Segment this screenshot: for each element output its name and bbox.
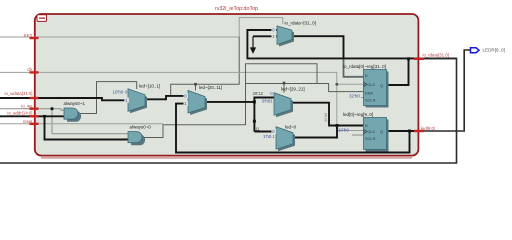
wire mux led~[20..11] out [205, 98, 275, 132]
wire KEY net [0, 18, 283, 95]
svg-text:ENA: ENA [365, 91, 373, 96]
svg-text:io_addr[14:0]: io_addr[14:0] [7, 111, 32, 116]
svg-text:io_rdata[31:0]: io_rdata[31:0] [423, 53, 449, 58]
net direction arrow [251, 36, 255, 52]
svg-text:10'h0: 10'h0 [338, 128, 349, 133]
svg-text:always0~1: always0~1 [64, 101, 86, 106]
wire io_wdata bus [0, 98, 128, 100]
register led[0]~reg[9..0] U3 [364, 118, 389, 152]
and gate always0~0 [128, 132, 145, 146]
wire mux led~[29..21] out to reg D [290, 103, 364, 126]
mux led~0 M4 [272, 127, 296, 152]
wire led feedback bus [176, 104, 419, 153]
wire always0~0 output net [144, 64, 364, 138]
svg-text:10'h0: 10'h0 [113, 90, 124, 95]
svg-text:CLK: CLK [368, 82, 376, 87]
wire io_rdata external [0, 58, 457, 163]
svg-text:always0~0: always0~0 [130, 124, 152, 129]
svg-text:led~[10..1]: led~[10..1] [139, 83, 160, 88]
collapse icon [37, 15, 47, 22]
mux led~[29..21] M3 [270, 91, 293, 117]
svg-text:led~0: led~0 [285, 124, 297, 129]
wire const stubs [352, 98, 364, 136]
wire clk net [0, 64, 364, 131]
register io_rdata[0]~reg[31..0] U2 [364, 70, 389, 108]
svg-text:32'h0: 32'h0 [349, 94, 360, 99]
output port LEDR[9:0] [471, 48, 505, 53]
wire reset net [0, 123, 163, 125]
svg-text:11: 11 [255, 127, 260, 132]
svg-text:32'h0: 32'h0 [324, 113, 328, 122]
svg-text:io_rdata~[31..0]: io_rdata~[31..0] [285, 21, 316, 26]
wire io_rdata mux pin1 stub [253, 35, 277, 37]
wire io_we net [0, 109, 128, 134]
junction dots [43, 57, 411, 132]
mux led~[20..11] M2 [184, 91, 208, 116]
mux io_rdata~[31..0] U1 [272, 26, 295, 47]
and gate always0~1 [64, 108, 81, 122]
mux led~[10..1] M1 [124, 89, 147, 114]
svg-text:LEDR[9..0]: LEDR[9..0] [483, 48, 505, 53]
module box rv32i_ieTop:doTop [35, 14, 419, 158]
svg-text:Q: Q [380, 83, 383, 88]
svg-text:io_wdata[31:0]: io_wdata[31:0] [5, 91, 33, 96]
wire always0~1 output net [79, 82, 137, 114]
svg-text:29'12: 29'12 [253, 91, 264, 96]
svg-text:led[0]~reg[9..0]: led[0]~reg[9..0] [343, 112, 373, 117]
wire io_addr bus [0, 116, 128, 139]
wire mux led~0 out [292, 126, 337, 138]
svg-text:io_rdata[0]~reg[31..0]: io_rdata[0]~reg[31..0] [343, 64, 386, 69]
wire mux led~[10..1] out [145, 96, 189, 99]
wire io_rdata feedback / output net [247, 30, 456, 85]
wire led to LEDR port [419, 50, 471, 131]
wire io_rdata mux out to reg D [292, 36, 344, 58]
svg-text:CLK: CLK [368, 129, 376, 134]
svg-text:SCLR: SCLR [365, 97, 376, 102]
svg-text:D: D [365, 123, 368, 128]
svg-text:1'h0: 1'h0 [263, 134, 272, 139]
svg-text:led~[29..21]: led~[29..21] [281, 87, 305, 92]
svg-text:led~[20..11]: led~[20..11] [199, 85, 222, 90]
svg-text:clk: clk [27, 67, 33, 72]
svg-text:rv32i_ieTop:doTop: rv32i_ieTop:doTop [215, 6, 258, 12]
svg-text:9'h0: 9'h0 [262, 99, 271, 104]
svg-text:Q: Q [380, 129, 383, 134]
svg-text:D: D [365, 73, 368, 78]
svg-text:SCLR: SCLR [365, 136, 376, 141]
